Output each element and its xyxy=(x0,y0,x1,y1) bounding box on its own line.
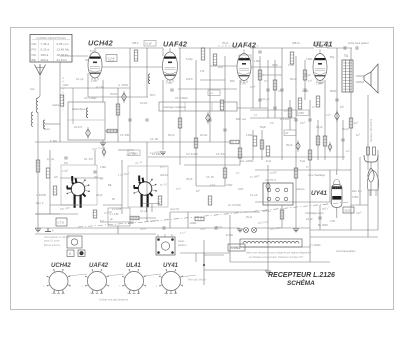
svg-text:189 à: 189 à xyxy=(41,53,49,57)
svg-text:Exc. 1200Ω: Exc. 1200Ω xyxy=(240,159,254,163)
svg-text:470K: 470K xyxy=(288,63,294,67)
svg-text:13,46 Mc: 13,46 Mc xyxy=(57,48,70,52)
svg-text:Valeur des résistances avec in: Valeur des résistances avec intégrées pa… xyxy=(246,252,312,255)
svg-text:RECEPTEUR L.2126: RECEPTEUR L.2126 xyxy=(268,272,335,279)
svg-text:220Ω: 220Ω xyxy=(190,221,196,225)
svg-text:bobinage oscillateur: bobinage oscillateur xyxy=(163,105,186,109)
svg-text:1 2 3: 1 2 3 xyxy=(166,81,172,85)
svg-text:468 Kc: 468 Kc xyxy=(292,41,301,45)
svg-text:6,3 V: 6,3 V xyxy=(216,225,222,229)
svg-text:50p: 50p xyxy=(330,55,335,59)
svg-text:0,1 μF: 0,1 μF xyxy=(140,209,148,213)
svg-text:FUSIBLE: FUSIBLE xyxy=(230,247,241,250)
svg-text:7,36 à: 7,36 à xyxy=(41,42,50,46)
svg-text:5,10 à: 5,10 à xyxy=(41,48,50,52)
svg-text:UCH42: UCH42 xyxy=(88,39,113,48)
svg-text:Ant.: Ant. xyxy=(30,87,35,91)
svg-text:Ch. 25: Ch. 25 xyxy=(206,175,214,179)
svg-text:0,3 A: 0,3 A xyxy=(128,221,134,225)
svg-text:35 pF: 35 pF xyxy=(186,177,193,181)
svg-text:UAF42: UAF42 xyxy=(163,40,187,49)
svg-text:50μF: 50μF xyxy=(260,125,266,129)
svg-text:435 K: 435 K xyxy=(132,41,139,45)
svg-text:GO: GO xyxy=(54,175,58,179)
svg-text:Volume: Volume xyxy=(296,187,305,191)
svg-text:PO: PO xyxy=(64,161,68,165)
svg-text:25 KΩ: 25 KΩ xyxy=(110,92,117,96)
svg-text:1 MΩ: 1 MΩ xyxy=(302,89,308,93)
svg-text:50 μF: 50 μF xyxy=(290,77,297,81)
svg-text:2x50: 2x50 xyxy=(298,111,304,115)
svg-text:UCH42: UCH42 xyxy=(51,263,71,269)
svg-text:HT: HT xyxy=(285,131,289,135)
svg-text:Ch. B.F.: Ch. B.F. xyxy=(216,152,226,156)
svg-text:OC.: OC. xyxy=(32,53,38,57)
svg-text:6 V: 6 V xyxy=(100,219,104,223)
svg-text:UY41: UY41 xyxy=(163,263,179,269)
svg-text:Culots vus par dessous: Culots vus par dessous xyxy=(99,298,129,302)
svg-text:BE: BE xyxy=(108,183,112,187)
svg-text:Hétérodyne: Hétérodyne xyxy=(72,107,86,111)
svg-text:2 x 0,05: 2 x 0,05 xyxy=(112,207,122,211)
svg-text:24 μF: 24 μF xyxy=(306,217,313,221)
svg-text:Ch. 0,05μF: Ch. 0,05μF xyxy=(84,96,97,100)
svg-text:B+ 250V: B+ 250V xyxy=(318,223,328,227)
svg-text:440 Kc: 440 Kc xyxy=(160,173,169,177)
svg-text:2 x 0,05: 2 x 0,05 xyxy=(110,213,119,216)
svg-text:25 μF: 25 μF xyxy=(316,125,323,129)
svg-text:0,25: 0,25 xyxy=(318,81,324,85)
svg-text:10 KΩ: 10 KΩ xyxy=(140,101,147,105)
svg-text:1 2 3: 1 2 3 xyxy=(240,82,246,86)
svg-text:vers haut-parleur: vers haut-parleur xyxy=(336,249,356,253)
svg-text:AI. Pâle: AI. Pâle xyxy=(152,152,162,156)
svg-text:au Châssis correspondant. Posi: au Châssis correspondant. Positions norm… xyxy=(249,256,304,259)
svg-text:2 x 600Ω: 2 x 600Ω xyxy=(310,243,321,247)
svg-text:UL41: UL41 xyxy=(126,263,141,269)
svg-text:0,05: 0,05 xyxy=(150,220,155,223)
svg-text:470 KΩ: 470 KΩ xyxy=(280,117,289,121)
svg-text:50K: 50K xyxy=(230,79,235,83)
svg-text:Chauffage déph.: Chauffage déph. xyxy=(305,211,324,215)
svg-text:Res. lim.: Res. lim. xyxy=(352,189,362,193)
svg-text:GAMMES RECEPTRICES: GAMMES RECEPTRICES xyxy=(36,37,66,40)
svg-text:47Ω: 47Ω xyxy=(330,219,335,223)
svg-text:25 pF: 25 pF xyxy=(304,73,311,77)
svg-text:ANT: ANT xyxy=(238,187,244,191)
svg-text:20 KΩ: 20 KΩ xyxy=(200,133,207,137)
svg-text:50 K lin.: 50 K lin. xyxy=(262,209,272,213)
svg-text:Ch. 0,05μF: Ch. 0,05μF xyxy=(175,96,188,100)
svg-text:OC: OC xyxy=(94,175,98,179)
svg-text:50 K: 50 K xyxy=(150,93,156,97)
svg-text:35 pF: 35 pF xyxy=(286,143,293,147)
svg-text:poser DL écran: poser DL écran xyxy=(44,240,60,243)
svg-text:8 μF: 8 μF xyxy=(266,159,272,163)
svg-text:UAF42: UAF42 xyxy=(89,263,109,269)
svg-text:100 K: 100 K xyxy=(186,77,193,81)
svg-text:2125: 2125 xyxy=(345,209,351,213)
svg-text:460 à: 460 à xyxy=(41,58,49,62)
svg-text:800Ω: 800Ω xyxy=(330,89,336,93)
svg-text:CV. 2x490: CV. 2x490 xyxy=(186,152,198,156)
svg-text:parleur: parleur xyxy=(177,243,188,247)
svg-text:6. MΩ: 6. MΩ xyxy=(50,139,57,143)
svg-text:Terre: Terre xyxy=(44,127,50,131)
svg-text:50 μF: 50 μF xyxy=(342,127,349,131)
svg-text:5-20p: 5-20p xyxy=(186,57,193,61)
svg-text:470Ω: 470Ω xyxy=(226,183,232,187)
svg-text:25 pF: 25 pF xyxy=(96,193,103,197)
svg-text:Ch. 470: Ch. 470 xyxy=(84,158,93,161)
svg-text:PU: PU xyxy=(100,178,104,181)
svg-text:25pF: 25pF xyxy=(272,63,278,67)
svg-text:Ch. 25K: Ch. 25K xyxy=(120,133,130,137)
svg-text:200: 200 xyxy=(64,83,69,87)
svg-text:Bob. osc: Bob. osc xyxy=(236,117,247,121)
svg-text:1 MΩ: 1 MΩ xyxy=(254,59,260,63)
svg-text:1 2 3: 1 2 3 xyxy=(91,79,97,83)
svg-text:2 MΩ: 2 MΩ xyxy=(306,57,312,61)
svg-text:T: T xyxy=(52,229,54,233)
svg-text:Ch. HF: Ch. HF xyxy=(150,137,159,141)
svg-text:50 pF: 50 pF xyxy=(168,133,175,137)
svg-text:9,55 mm: 9,55 mm xyxy=(57,42,69,46)
svg-text:25 pF: 25 pF xyxy=(240,56,247,60)
svg-text:BE.: BE. xyxy=(32,58,37,62)
svg-text:24.417: 24.417 xyxy=(74,125,83,129)
svg-text:0,1 μF: 0,1 μF xyxy=(262,97,270,101)
svg-text:PO.: PO. xyxy=(32,48,37,52)
svg-text:472: 472 xyxy=(200,69,205,73)
svg-text:Cadre: Cadre xyxy=(52,103,60,107)
svg-text:2 MΩ: 2 MΩ xyxy=(246,133,252,137)
svg-text:GO.: GO. xyxy=(32,42,38,46)
svg-text:ANT HP S: ANT HP S xyxy=(265,179,276,182)
svg-text:47 pF: 47 pF xyxy=(108,59,115,63)
svg-text:C.T.N.: C.T.N. xyxy=(58,222,65,225)
svg-text:0,1 μF: 0,1 μF xyxy=(250,193,258,197)
svg-text:sortie haut parleur: sortie haut parleur xyxy=(348,41,369,45)
svg-text:Commutateur vu côté (à): Commutateur vu côté (à) xyxy=(44,236,70,239)
svg-text:vers CV: vers CV xyxy=(170,207,179,211)
svg-text:31,8 Kc: 31,8 Kc xyxy=(57,58,68,62)
svg-text:m. 470Ω: m. 470Ω xyxy=(118,83,128,87)
svg-text:n. 52750: n. 52750 xyxy=(36,193,47,197)
svg-text:0,1: 0,1 xyxy=(209,91,213,95)
svg-text:Bornier antenne: Bornier antenne xyxy=(44,244,61,247)
svg-text:25 μF: 25 μF xyxy=(246,216,253,219)
svg-text:0,1 μF: 0,1 μF xyxy=(76,77,84,81)
svg-text:175Ω: 175Ω xyxy=(352,195,358,199)
svg-text:SCHÉMA: SCHÉMA xyxy=(287,278,315,287)
svg-text:8 μF: 8 μF xyxy=(300,159,306,163)
svg-text:0,1μ: 0,1μ xyxy=(218,65,224,69)
svg-text:G 52: G 52 xyxy=(258,73,264,77)
svg-text:50 pF: 50 pF xyxy=(317,43,324,47)
svg-text:Rev. 3: Rev. 3 xyxy=(36,201,44,205)
svg-text:G. Osc: G. Osc xyxy=(96,85,105,89)
svg-text:51 pF: 51 pF xyxy=(145,42,152,46)
svg-text:Secteur 110-220 V: Secteur 110-220 V xyxy=(369,119,373,142)
svg-text:35 pF: 35 pF xyxy=(222,41,229,45)
svg-text:2 MΩ: 2 MΩ xyxy=(100,166,106,169)
svg-text:T4: T4 xyxy=(344,54,348,58)
svg-text:E 250: E 250 xyxy=(226,233,233,237)
svg-text:0,1 μF: 0,1 μF xyxy=(47,158,55,161)
svg-text:vers chauffage: vers chauffage xyxy=(308,173,326,177)
svg-text:6,3: 6,3 xyxy=(90,49,94,53)
svg-text:Gr. 0,5 MΩ: Gr. 0,5 MΩ xyxy=(228,203,241,207)
svg-text:Prise gril. blindée: Prise gril. blindée xyxy=(188,279,207,282)
